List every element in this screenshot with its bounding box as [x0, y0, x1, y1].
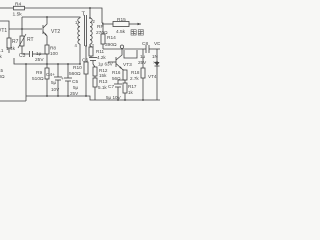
label + C5	[61, 77, 78, 85]
svg-text:5μ 10V: 5μ 10V	[106, 95, 122, 100]
svg-text:R8: R8	[50, 46, 56, 51]
resistor R16	[123, 70, 127, 80]
svg-text:+: +	[61, 77, 64, 82]
value 5u 10V	[106, 95, 122, 100]
svg-text:1k: 1k	[128, 90, 134, 95]
svg-text:VT4: VT4	[148, 74, 157, 79]
resistor R11	[90, 46, 92, 47]
capacitor C8	[145, 45, 147, 53]
svg-text:C3: C3	[19, 53, 26, 59]
svg-text:510Ω: 510Ω	[32, 76, 44, 82]
node bottom x125	[124, 99, 126, 101]
svg-text:R11: R11	[96, 49, 105, 54]
wire primary bottom	[79, 44, 81, 64]
svg-text:R15: R15	[117, 17, 126, 23]
label R18	[131, 70, 140, 75]
transformer primary winding	[78, 18, 80, 44]
label C6	[82, 58, 88, 64]
wire left-edge stub to VT1	[0, 21, 9, 29]
wire bottom-left rail	[0, 100, 26, 102]
left edge fragment text lower	[0, 68, 5, 79]
capacitor C6	[89, 57, 97, 59]
node VT2 collector junction	[46, 16, 48, 18]
svg-text:100: 100	[50, 51, 58, 56]
label VT2	[51, 29, 60, 35]
label output (shuchu)	[131, 30, 143, 35]
svg-text:45: 45	[0, 68, 4, 73]
svg-text:R10: R10	[73, 65, 82, 71]
value 1k	[128, 90, 134, 95]
svg-text:1μ: 1μ	[36, 51, 42, 57]
wire bottom rail	[26, 96, 160, 100]
label VT3	[123, 62, 132, 68]
value 5.1k	[98, 85, 107, 90]
svg-text:C8: C8	[142, 41, 148, 47]
node base junction	[21, 28, 23, 30]
capacitor C4	[57, 64, 59, 77]
svg-text:390Ω: 390Ω	[105, 42, 117, 48]
node x68	[67, 63, 69, 65]
svg-text:25V: 25V	[70, 91, 79, 96]
label VT4	[148, 74, 157, 79]
label R9	[36, 70, 42, 76]
thermistor RT	[20, 36, 24, 46]
svg-text:25V: 25V	[35, 57, 44, 63]
pin 1	[75, 20, 78, 25]
transistor VT2	[42, 25, 44, 34]
wire collector frame	[124, 50, 137, 58]
value 5u 10V	[51, 80, 60, 92]
wire R13 to bottom rail	[94, 87, 96, 100]
svg-text:R9: R9	[36, 70, 42, 76]
svg-text:2.7k: 2.7k	[130, 76, 139, 81]
svg-text:1.4k: 1.4k	[6, 46, 16, 52]
svg-text:C6: C6	[82, 58, 88, 64]
svg-text:R4: R4	[15, 2, 22, 8]
value 2.7k	[130, 76, 139, 81]
resistor R9	[46, 64, 48, 68]
svg-text:15k: 15k	[99, 73, 107, 78]
label C3	[19, 53, 26, 59]
resistor R7	[7, 38, 11, 48]
node x80	[79, 63, 81, 65]
resistor R17	[123, 83, 127, 93]
resistor R13	[93, 78, 97, 87]
resistor R14	[101, 34, 105, 44]
node x26	[25, 63, 27, 65]
potentiometer RP	[102, 23, 103, 34]
value 510	[32, 76, 44, 82]
resistor R12	[93, 67, 97, 76]
pin 4	[75, 43, 78, 48]
svg-text:R14: R14	[107, 35, 116, 41]
svg-text:5.1: 5.1	[0, 48, 4, 53]
svg-text:VT3: VT3	[123, 62, 132, 68]
svg-text:R16: R16	[112, 70, 121, 75]
label R4	[15, 2, 22, 8]
transistor VT1 (cut off at left edge)	[8, 29, 10, 38]
wire left drop to bottom rail	[25, 64, 27, 101]
wire VT2 base rail	[9, 28, 42, 30]
svg-text:5.1k: 5.1k	[98, 85, 107, 90]
svg-text:1.5k: 1.5k	[13, 12, 23, 18]
label 1N x2	[152, 54, 159, 65]
value 5u 25V	[70, 85, 79, 96]
label R15	[117, 17, 126, 23]
label VD	[154, 41, 161, 47]
svg-text:4.5k: 4.5k	[116, 29, 126, 35]
node x58	[57, 63, 59, 65]
svg-text:R13: R13	[99, 79, 108, 84]
pin 2	[93, 19, 96, 24]
label VT1	[0, 28, 7, 34]
value 1u 25V	[35, 51, 44, 63]
svg-text:C4+: C4+	[46, 72, 55, 78]
svg-text:T: T	[82, 12, 86, 18]
terminal circle output	[120, 45, 123, 48]
value 560	[69, 71, 81, 77]
label R11	[96, 49, 105, 54]
node bottom x143	[142, 99, 144, 101]
svg-text:4.2k: 4.2k	[97, 55, 106, 60]
wire top rail B+	[0, 7, 13, 9]
svg-text:RP: RP	[97, 24, 104, 30]
svg-text:C7: C7	[108, 84, 114, 90]
pin 3	[92, 43, 95, 48]
wire primary top stub	[79, 17, 81, 18]
node bottom x86	[85, 95, 87, 97]
node R10 tap	[85, 45, 87, 47]
svg-text:VT2: VT2	[51, 29, 60, 35]
value 270	[96, 30, 108, 36]
diode VD column	[156, 49, 158, 62]
wire rail y64	[14, 58, 80, 64]
value 1u 25V	[138, 54, 147, 65]
wire mid rail to transformer primary	[22, 17, 80, 18]
svg-text:10V: 10V	[51, 87, 60, 92]
svg-text:VD: VD	[154, 41, 160, 47]
resistor R8	[45, 45, 49, 54]
label R12	[99, 68, 108, 73]
svg-text:VT1: VT1	[0, 28, 7, 34]
left edge fragment text upper	[0, 48, 4, 59]
wire output row y49	[103, 48, 146, 50]
svg-text:25V: 25V	[138, 60, 147, 65]
svg-text:R7: R7	[12, 39, 19, 45]
value 15k	[99, 73, 107, 78]
label R8	[50, 46, 56, 51]
value 1.5k	[13, 12, 23, 18]
wire RT to C3	[22, 46, 29, 54]
transistor VT3	[115, 57, 117, 67]
value 56	[112, 76, 121, 81]
node secondary top	[89, 7, 91, 9]
node bottom x47	[46, 95, 48, 97]
label R13	[99, 79, 108, 84]
value 4.5k	[116, 29, 126, 35]
capacitor C5	[67, 64, 69, 78]
node bottom x118	[117, 99, 119, 101]
capacitor C7	[118, 80, 125, 84]
label R17	[128, 84, 137, 89]
label RP	[97, 24, 104, 30]
resistor R15	[102, 23, 113, 25]
label RT	[27, 37, 34, 43]
label R16	[112, 70, 121, 75]
node bottom x68	[67, 95, 69, 97]
wire RT column	[21, 17, 23, 36]
value 390	[105, 42, 117, 48]
wire R12-R13	[94, 76, 96, 78]
value 4.2k	[97, 55, 106, 60]
resistor R10	[85, 46, 87, 62]
label R7	[12, 39, 19, 45]
resistor R4	[14, 6, 25, 10]
wire VT3 emitter column	[122, 69, 125, 83]
svg-text:5μ: 5μ	[51, 80, 57, 85]
svg-text:560Ω: 560Ω	[69, 71, 81, 77]
wire R8 to mid ground rail	[46, 54, 48, 64]
svg-text:RT: RT	[27, 37, 34, 43]
label C7	[108, 84, 114, 90]
value 1u 63V	[98, 62, 114, 67]
resistor R18	[142, 49, 144, 68]
label R14	[107, 35, 116, 41]
transformer T core	[84, 15, 86, 46]
value 100	[50, 51, 58, 56]
wire secondary top stub	[89, 8, 91, 18]
label T	[82, 12, 86, 18]
svg-text:5μ: 5μ	[73, 85, 79, 90]
value 1.4k	[6, 46, 16, 52]
capacitor C3	[29, 51, 31, 57]
svg-text:R18: R18	[131, 70, 140, 75]
label R10	[73, 65, 82, 71]
node bottom x58	[57, 95, 59, 97]
label C4+	[46, 72, 55, 78]
transformer secondary winding	[90, 18, 92, 44]
node x47	[46, 63, 48, 65]
svg-text:R17: R17	[128, 84, 137, 89]
wire secondary bottom link	[90, 44, 91, 46]
label C8	[142, 41, 148, 47]
svg-text:50Ω: 50Ω	[0, 74, 5, 79]
